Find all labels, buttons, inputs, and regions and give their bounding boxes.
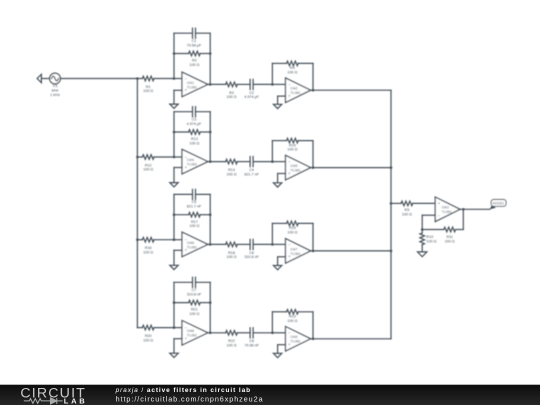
node OA6 output junction [209, 243, 212, 246]
svg-text:100 Ω: 100 Ω [402, 213, 412, 217]
ground (OA8 non-inverting input) [170, 339, 182, 358]
svg-text:TL081: TL081 [187, 163, 197, 167]
svg-text:R3: R3 [229, 91, 234, 95]
svg-text:621.7 nF: 621.7 nF [244, 172, 259, 176]
resistor R17 100 Ω (feedback) [173, 212, 212, 217]
op-amp OA4 TL081 [182, 149, 208, 174]
svg-text:R12: R12 [145, 163, 152, 167]
svg-text:C4: C4 [249, 168, 254, 172]
svg-text:4.974 µF: 4.974 µF [244, 95, 259, 99]
wire source to left bus [60, 78, 137, 80]
svg-text:TL081: TL081 [290, 169, 300, 173]
svg-text:C1: C1 [192, 39, 197, 43]
svg-text:R18: R18 [228, 251, 235, 255]
svg-text:TL081: TL081 [187, 245, 197, 249]
node OA9 output junction [312, 338, 315, 341]
ground (OA4 non-inverting input) [170, 168, 182, 187]
svg-text:79.58 nF: 79.58 nF [244, 344, 259, 348]
svg-text:1 kHz: 1 kHz [50, 93, 60, 97]
svg-text:100 Ω: 100 Ω [143, 168, 153, 172]
svg-text:C3: C3 [192, 117, 197, 121]
resistor R2 100 Ω (feedback) [173, 51, 212, 56]
op-amp OA9 TL081 [286, 327, 311, 352]
resistor R4 100 Ω (feedback) [272, 61, 313, 90]
capacitor C8 79.58 nF (series) [250, 328, 272, 338]
svg-text:R1: R1 [146, 85, 151, 89]
svg-text:100 Ω: 100 Ω [227, 95, 237, 99]
resistor R19 100 Ω (feedback) [272, 221, 313, 251]
svg-text:NODE1: NODE1 [493, 201, 505, 205]
svg-text:R16: R16 [145, 246, 152, 250]
ground (OA9 non-inverting input) [273, 345, 285, 358]
svg-text:http://circuitlab.com/cnpn6xph: http://circuitlab.com/cnpn6xphzeu2a [116, 394, 264, 403]
svg-text:TL081: TL081 [442, 210, 452, 214]
wire OA9 output to bus [311, 338, 391, 340]
wire feedback left vertical [173, 33, 175, 78]
svg-text:C6: C6 [249, 251, 254, 255]
svg-text:R4: R4 [290, 66, 295, 70]
svg-text:310.8 nF: 310.8 nF [244, 255, 259, 259]
svg-text:R2: R2 [192, 59, 197, 63]
svg-text:R21: R21 [191, 308, 198, 312]
svg-text:OA7: OA7 [290, 247, 297, 251]
svg-text:R13: R13 [191, 137, 198, 141]
node OA4 output junction [209, 160, 212, 163]
svg-text:100 Ω: 100 Ω [143, 250, 153, 254]
resistor R3 100 Ω (series) [208, 82, 250, 87]
op-amp OA5 TL081 [286, 155, 311, 180]
svg-text:R9: R9 [405, 208, 410, 212]
resistor R13 100 Ω (feedback) [173, 130, 212, 135]
resistor R20 100 Ω [137, 325, 174, 330]
wire OA3 output [460, 208, 490, 210]
resistor R10 100 Ω (to ground) [420, 230, 425, 252]
node bus junction row2 [390, 166, 393, 169]
svg-text:OA3: OA3 [442, 205, 449, 209]
svg-text:OA6: OA6 [187, 241, 194, 245]
svg-text:C5: C5 [192, 200, 197, 204]
svg-text:100 Ω: 100 Ω [287, 231, 297, 235]
resistor R11 100 Ω (feedback) [422, 209, 463, 232]
svg-text:OA1: OA1 [187, 81, 194, 85]
svg-text:100 Ω: 100 Ω [189, 224, 199, 228]
svg-text:4.974 µF: 4.974 µF [187, 122, 202, 126]
svg-text:TL081: TL081 [187, 85, 197, 89]
svg-text:OA8: OA8 [187, 329, 194, 333]
node OA3 output junction [462, 208, 465, 211]
right summing bus wire [390, 90, 392, 339]
op-amp OA3 TL081 (summing) [435, 197, 460, 222]
node feedback junction [421, 228, 424, 231]
wire feedback left vertical [173, 194, 175, 239]
label V3 sine 1 kHz [50, 84, 60, 97]
svg-text:100 Ω: 100 Ω [189, 312, 199, 316]
node bus to R9 junction [390, 202, 393, 205]
ground (R10) [418, 252, 427, 257]
wire OA7 output to bus [311, 250, 391, 252]
svg-text:sine: sine [52, 89, 59, 93]
wire input node to op-amp OA4 inverting input [174, 156, 182, 158]
svg-text:OA5: OA5 [290, 164, 297, 168]
wire OA2 output to bus [311, 89, 391, 91]
svg-text:100 Ω: 100 Ω [426, 240, 436, 244]
resistor R23 100 Ω (feedback) [272, 310, 313, 339]
node row3 input junction [136, 238, 139, 241]
node OA5 inverting input junction [272, 161, 285, 163]
svg-text:R23: R23 [289, 315, 296, 319]
voltage source V3 (sine, 1 kHz) [50, 73, 61, 84]
svg-text:TL081: TL081 [290, 340, 300, 344]
node row1 input junction [136, 77, 139, 80]
svg-text:C8: C8 [249, 339, 254, 343]
resistor R22 100 Ω (series) [208, 331, 250, 336]
svg-text:100 Ω: 100 Ω [227, 255, 237, 259]
ground (OA7 non-inverting input) [273, 257, 285, 270]
capacitor C1 79.58 µF (feedback) [174, 28, 210, 38]
svg-text:TL081: TL081 [187, 334, 197, 338]
ground (OA6 non-inverting input) [170, 250, 182, 269]
svg-text:V3: V3 [53, 84, 58, 88]
capacitor C5 621.7 nF (feedback) [174, 189, 210, 199]
op-amp OA1 TL081 [182, 72, 208, 97]
svg-text:100 Ω: 100 Ω [227, 172, 237, 176]
ground (OA2 non-inverting input) [273, 96, 285, 109]
wire feedback left vertical [173, 112, 175, 157]
svg-text:R14: R14 [228, 168, 235, 172]
node OA9 inverting input junction [272, 332, 285, 334]
node row2 input junction [136, 156, 139, 159]
svg-text:TL081: TL081 [290, 252, 300, 256]
resistor R18 100 Ω (series) [208, 242, 250, 247]
svg-text:OA9: OA9 [290, 335, 297, 339]
svg-text:100 Ω: 100 Ω [227, 344, 237, 348]
op-amp OA7 TL081 [286, 239, 311, 264]
wire feedback right vertical [209, 112, 211, 162]
ground (OA5 non-inverting input) [273, 174, 285, 188]
svg-text:LAB: LAB [64, 396, 88, 405]
capacitor C7 310.8 nF (feedback) [174, 277, 210, 287]
svg-text:100 Ω: 100 Ω [189, 63, 199, 67]
wire feedback right vertical [209, 33, 211, 84]
svg-text:310.8 nF: 310.8 nF [187, 292, 202, 296]
ground (OA1 non-inverting input) [170, 90, 182, 108]
resistor R14 100 Ω (series) [208, 159, 250, 164]
resistor R16 100 Ω [137, 237, 174, 242]
wire feedback left vertical [173, 282, 175, 327]
svg-text:100 Ω: 100 Ω [287, 148, 297, 152]
wire input node to op-amp OA1 inverting input [174, 78, 182, 80]
svg-text:OA4: OA4 [187, 158, 194, 162]
node OA7 output junction [312, 250, 315, 253]
node OA2 output junction [312, 89, 315, 92]
wire input node to op-amp OA8 inverting input [174, 327, 182, 329]
svg-text:100 Ω: 100 Ω [143, 338, 153, 342]
wire OA3 inverting input to feedback node [422, 215, 435, 229]
wire feedback right vertical [209, 282, 211, 333]
svg-text:R22: R22 [228, 339, 235, 343]
left distribution bus wire [136, 79, 138, 328]
resistor R1 100 Ω [137, 76, 174, 81]
ground (source negative, pointing left) [37, 74, 50, 82]
op-amp OA2 TL081 [286, 78, 311, 103]
capacitor C2 4.974 µF (series) [250, 79, 272, 89]
node bus junction row3 [390, 250, 393, 253]
capacitor C6 310.8 nF (series) [250, 239, 272, 249]
svg-text:R20: R20 [145, 334, 152, 338]
svg-text:TL081: TL081 [290, 91, 300, 95]
op-amp OA8 TL081 [182, 321, 208, 346]
resistor R9 100 Ω [391, 201, 435, 206]
svg-text:100 Ω: 100 Ω [287, 319, 297, 323]
node OA7 inverting input junction [272, 243, 285, 245]
resistor R15 100 Ω (feedback) [272, 138, 313, 167]
capacitor C3 4.974 µF (feedback) [174, 107, 210, 117]
svg-text:100 Ω: 100 Ω [445, 239, 455, 243]
op-amp OA6 TL081 [182, 232, 208, 257]
svg-text:OA2: OA2 [290, 87, 297, 91]
svg-text:R19: R19 [289, 226, 296, 230]
svg-text:C2: C2 [249, 91, 254, 95]
svg-text:praxja / active filters in cir: praxja / active filters in circuit lab [115, 387, 251, 394]
node OA1 output junction [209, 83, 212, 86]
svg-text:R17: R17 [191, 220, 198, 224]
wire input node to op-amp OA6 inverting input [174, 239, 182, 241]
svg-text:R15: R15 [289, 143, 296, 147]
svg-text:R11: R11 [446, 235, 453, 239]
svg-text:100 Ω: 100 Ω [189, 142, 199, 146]
node OA2 inverting input junction [272, 83, 285, 85]
wire OA5 output to bus [311, 167, 391, 169]
wire feedback right vertical [209, 194, 211, 244]
svg-text:100 Ω: 100 Ω [287, 71, 297, 75]
resistor R12 100 Ω [137, 155, 174, 160]
svg-text:C7: C7 [192, 288, 197, 292]
svg-text:100 Ω: 100 Ω [143, 89, 153, 93]
node OA5 output junction [312, 166, 315, 169]
capacitor C4 621.7 nF (series) [250, 157, 272, 167]
resistor R21 100 Ω (feedback) [173, 300, 212, 305]
svg-text:79.58 µF: 79.58 µF [187, 43, 202, 47]
node NODE1 flag [489, 200, 506, 210]
svg-text:621.7 nF: 621.7 nF [187, 205, 202, 209]
svg-text:R10: R10 [426, 235, 433, 239]
node OA8 output junction [209, 332, 212, 335]
